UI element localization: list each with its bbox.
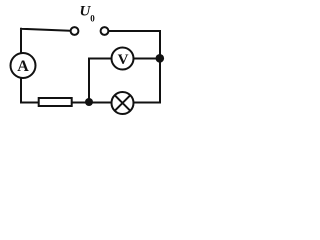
wire: top-left segment and left branch down through ammeter bbox=[21, 29, 70, 103]
terminal left (open circle) bbox=[71, 27, 79, 35]
svg-text:0: 0 bbox=[90, 14, 95, 24]
junction node (resistor / lamp / voltmeter branch) bbox=[85, 98, 93, 106]
lamp (circle with X) bbox=[112, 92, 134, 114]
label U0 bbox=[80, 3, 96, 23]
terminal right (open circle) bbox=[101, 27, 109, 35]
wire: top-right segment, right side, bottom run bbox=[21, 31, 160, 103]
svg-text:V: V bbox=[118, 52, 129, 68]
svg-text:A: A bbox=[17, 58, 29, 75]
resistor R bbox=[39, 98, 72, 106]
junction node (voltmeter branch / right wire) bbox=[156, 54, 165, 63]
ammeter A bbox=[11, 53, 36, 78]
voltmeter V bbox=[112, 48, 134, 70]
wire: voltmeter branch (junction up, across to right wire) bbox=[89, 59, 160, 103]
